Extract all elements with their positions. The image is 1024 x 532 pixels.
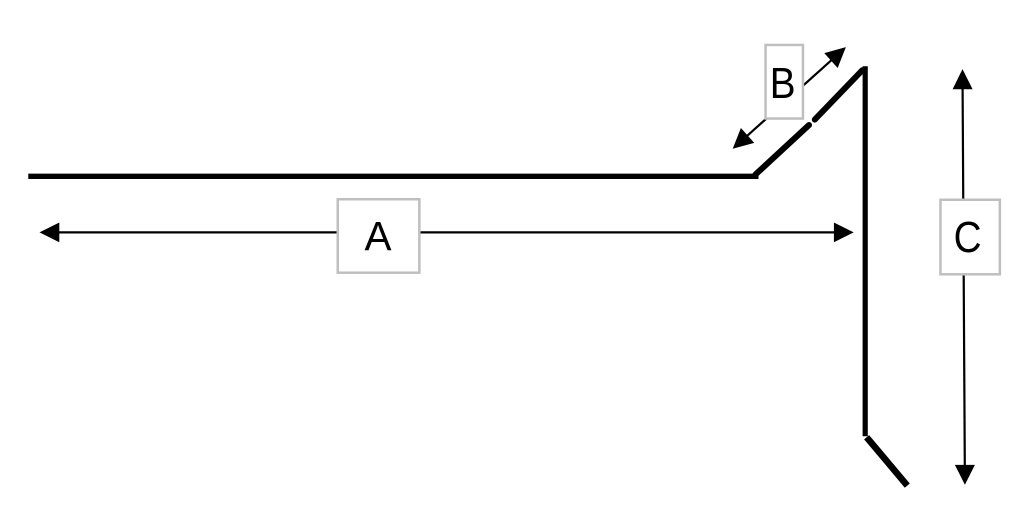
dimension arrow B line: [726, 40, 853, 157]
dimension arrow C line: [963, 88, 965, 466]
dimension arrow B upper-right arrowhead: [824, 40, 852, 68]
svg-text:C: C: [954, 212, 982, 262]
dimension arrow A right arrowhead: [834, 223, 854, 243]
label box A: [338, 199, 420, 272]
dimension arrow C bottom arrowhead: [955, 465, 975, 485]
dimension arrow C top arrowhead: [953, 69, 973, 89]
dimension arrow A left arrowhead: [40, 223, 60, 243]
profile bottom diagonal (kick-out): [867, 437, 908, 485]
profile horizontal line: [28, 174, 758, 179]
label box C: [940, 200, 999, 275]
svg-text:B: B: [770, 57, 796, 107]
profile upper diagonal segment: [815, 70, 862, 119]
dimension arrow B lower-left arrowhead: [726, 128, 754, 156]
label box B: [766, 45, 803, 119]
dimension arrow A line: [57, 231, 836, 233]
profile lower diagonal segment: [756, 125, 810, 175]
svg-text:A: A: [364, 213, 391, 259]
profile vertical line: [863, 66, 868, 436]
